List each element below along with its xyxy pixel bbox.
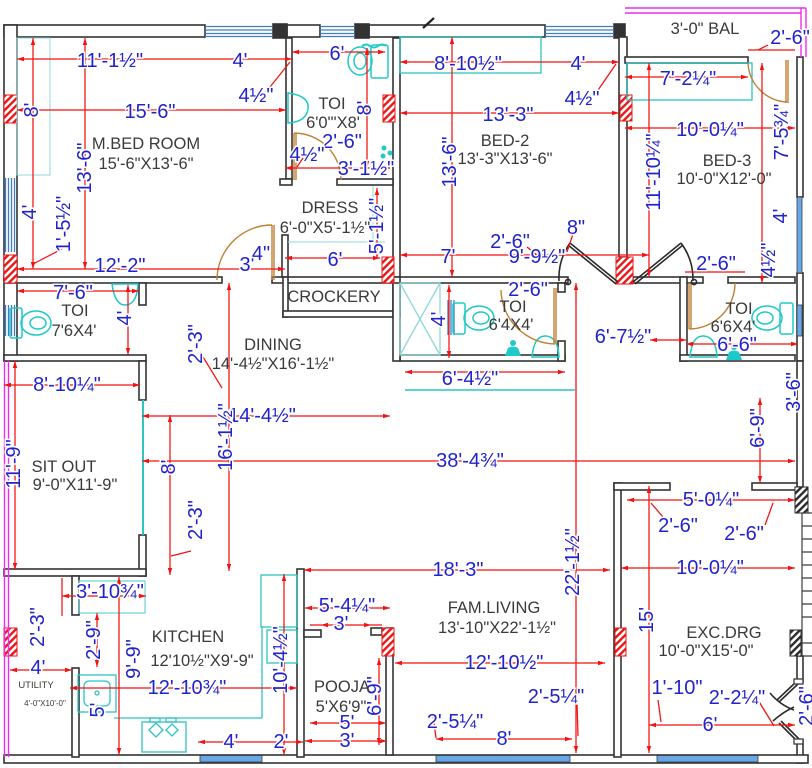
svg-text:11'-10¼": 11'-10¼" xyxy=(643,133,665,210)
svg-text:16'-1½": 16'-1½" xyxy=(215,403,237,471)
svg-text:8'-10¼": 8'-10¼" xyxy=(33,374,101,396)
svg-text:6': 6' xyxy=(328,249,343,271)
svg-text:4': 4' xyxy=(31,657,46,679)
svg-text:15': 15' xyxy=(636,607,658,633)
svg-text:5': 5' xyxy=(87,703,109,718)
svg-text:7'-6": 7'-6" xyxy=(53,282,93,304)
svg-text:4": 4" xyxy=(252,243,270,265)
svg-text:13'-3"X13'-6": 13'-3"X13'-6" xyxy=(457,150,552,168)
svg-text:13'-3": 13'-3" xyxy=(483,104,534,126)
svg-text:BED-3: BED-3 xyxy=(703,152,752,170)
svg-text:8': 8' xyxy=(158,460,180,475)
svg-text:6': 6' xyxy=(703,714,718,736)
svg-text:22'-1½": 22'-1½" xyxy=(562,528,584,596)
svg-text:7'-2¼": 7'-2¼" xyxy=(660,68,717,90)
svg-text:10'-4½": 10'-4½" xyxy=(270,626,292,694)
svg-text:3': 3' xyxy=(340,730,355,752)
svg-text:2'-6": 2'-6" xyxy=(796,686,812,726)
svg-text:3'-10¾": 3'-10¾" xyxy=(76,581,144,603)
svg-text:8'-10½": 8'-10½" xyxy=(434,53,502,75)
svg-text:4½": 4½" xyxy=(290,144,325,166)
svg-text:SIT OUT: SIT OUT xyxy=(32,458,97,476)
svg-text:TOI: TOI xyxy=(318,95,345,113)
svg-text:6'6X4': 6'6X4' xyxy=(711,318,756,336)
svg-text:3': 3' xyxy=(334,613,349,635)
svg-text:8': 8' xyxy=(497,728,512,750)
svg-text:7': 7' xyxy=(441,246,456,268)
svg-text:POOJA: POOJA xyxy=(314,678,370,696)
svg-text:12'-10¾": 12'-10¾" xyxy=(148,677,227,699)
svg-text:38'-4¾": 38'-4¾" xyxy=(436,450,504,472)
svg-text:M.BED ROOM: M.BED ROOM xyxy=(92,135,200,153)
svg-text:6'-4½": 6'-4½" xyxy=(442,368,499,390)
svg-text:9'-0"X11'-9": 9'-0"X11'-9" xyxy=(33,476,118,494)
svg-text:10'-0"X12'-0": 10'-0"X12'-0" xyxy=(676,170,771,188)
svg-text:6'-7½": 6'-7½" xyxy=(595,326,652,348)
svg-text:KITCHEN: KITCHEN xyxy=(152,628,224,646)
svg-text:2'-2¼": 2'-2¼" xyxy=(709,687,766,709)
svg-text:4½": 4½" xyxy=(758,243,780,278)
svg-text:2'-3": 2'-3" xyxy=(27,607,49,647)
svg-text:EXC.DRG: EXC.DRG xyxy=(686,624,761,642)
svg-text:BED-2: BED-2 xyxy=(481,132,530,150)
svg-text:4½": 4½" xyxy=(239,85,274,107)
svg-text:TOI: TOI xyxy=(61,302,88,320)
svg-text:8': 8' xyxy=(21,103,43,118)
svg-text:4': 4' xyxy=(114,311,136,326)
svg-text:DINING: DINING xyxy=(244,336,302,354)
svg-text:11'-9": 11'-9" xyxy=(3,439,25,488)
svg-text:18'-3": 18'-3" xyxy=(433,559,484,581)
svg-text:UTILITY: UTILITY xyxy=(18,680,54,691)
svg-text:2'-6": 2'-6" xyxy=(322,131,362,153)
svg-text:DRESS: DRESS xyxy=(302,199,359,217)
svg-text:6'-9": 6'-9" xyxy=(747,408,769,448)
svg-text:1'-10": 1'-10" xyxy=(652,677,703,699)
svg-text:2'-5¼": 2'-5¼" xyxy=(427,711,484,733)
svg-text:6'4X4': 6'4X4' xyxy=(489,316,534,334)
svg-text:2'-6": 2'-6" xyxy=(696,253,736,275)
svg-text:14'-4½"X16'-1½": 14'-4½"X16'-1½" xyxy=(212,355,335,373)
svg-text:4': 4' xyxy=(224,731,239,753)
svg-text:4': 4' xyxy=(770,209,792,224)
svg-text:CROCKERY: CROCKERY xyxy=(287,288,380,306)
svg-text:7'-5¾": 7'-5¾" xyxy=(771,104,793,161)
svg-text:2'-6": 2'-6" xyxy=(724,523,764,545)
svg-text:6'0"'X8': 6'0"'X8' xyxy=(306,114,360,132)
svg-text:15'-6"X13'-6": 15'-6"X13'-6" xyxy=(98,155,193,173)
svg-text:5'X6'9": 5'X6'9" xyxy=(316,698,367,716)
svg-text:6': 6' xyxy=(330,43,345,65)
svg-text:10'-0¼": 10'-0¼" xyxy=(676,119,744,141)
svg-text:14'-4½": 14'-4½" xyxy=(228,405,296,427)
svg-text:15'-6": 15'-6" xyxy=(125,101,176,123)
svg-text:4': 4' xyxy=(233,50,248,72)
svg-text:TOI: TOI xyxy=(499,298,526,316)
svg-text:2'-6": 2'-6" xyxy=(770,27,810,49)
svg-text:FAM.LIVING: FAM.LIVING xyxy=(448,599,541,617)
svg-text:3'-1½": 3'-1½" xyxy=(338,158,395,180)
svg-text:12'-2": 12'-2" xyxy=(95,255,146,277)
svg-text:6'-6": 6'-6" xyxy=(717,334,757,356)
svg-text:2'-3": 2'-3" xyxy=(185,324,207,364)
svg-text:1'-5½": 1'-5½" xyxy=(53,196,75,253)
svg-text:2'-6": 2'-6" xyxy=(658,515,698,537)
svg-text:TOI: TOI xyxy=(725,300,752,318)
svg-text:8": 8" xyxy=(567,217,585,239)
svg-text:2': 2' xyxy=(274,731,289,753)
svg-text:5'-0¼": 5'-0¼" xyxy=(683,489,740,511)
svg-text:3'-0" BAL: 3'-0" BAL xyxy=(671,20,740,38)
svg-text:2'-3": 2'-3" xyxy=(185,500,207,540)
svg-text:13'-10"X22'-1½": 13'-10"X22'-1½" xyxy=(438,619,556,637)
svg-text:10'-0¼": 10'-0¼" xyxy=(676,557,744,579)
svg-text:4': 4' xyxy=(428,312,450,327)
svg-text:4'-0"X10'-0": 4'-0"X10'-0" xyxy=(24,699,66,708)
svg-text:11'-1½": 11'-1½" xyxy=(77,50,143,72)
svg-text:12'10½"X9'-9": 12'10½"X9'-9" xyxy=(150,652,253,670)
svg-text:2'-9": 2'-9" xyxy=(83,620,105,660)
svg-text:4': 4' xyxy=(571,53,586,75)
svg-text:7'6X4': 7'6X4' xyxy=(52,322,97,340)
svg-text:9'-9": 9'-9" xyxy=(123,639,145,679)
svg-text:12'-10½": 12'-10½" xyxy=(465,652,544,674)
svg-text:2'-6": 2'-6" xyxy=(490,231,530,253)
svg-text:2'-5¼": 2'-5¼" xyxy=(528,686,585,708)
svg-text:3'-6": 3'-6" xyxy=(783,372,805,412)
svg-text:4½": 4½" xyxy=(565,88,600,110)
svg-text:4': 4' xyxy=(19,205,41,220)
svg-text:10'-0"X15'-0": 10'-0"X15'-0" xyxy=(658,642,753,660)
svg-text:6'-0"X5'-1½": 6'-0"X5'-1½" xyxy=(280,219,371,237)
